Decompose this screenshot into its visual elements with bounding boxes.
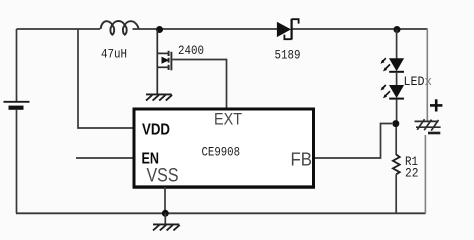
LED D3 (LED2 of LEDx string) [380, 85, 404, 99]
wire node B down to LED1 anode [396, 30, 398, 59]
battery BT1 [4, 102, 30, 110]
wire node D to resistor R1 [395, 127, 397, 155]
wire node C to ground symbol [164, 213, 166, 224]
transistor Q1 (N-MOSFET) [157, 51, 171, 71]
svg-text:22: 22 [405, 166, 419, 180]
wire top rail left (input to inductor) [17, 28, 101, 30]
wire left edge (battery - to bottom rail) [16, 110, 18, 214]
inductor L1 [101, 21, 139, 35]
wire left edge (top rail to battery +) [16, 29, 18, 101]
label - polarity (C1) [428, 132, 440, 135]
svg-text:VDD: VDD [142, 121, 170, 138]
svg-text:CE9908: CE9908 [202, 146, 241, 160]
wire LED2 cathode to node D [396, 99, 398, 121]
wire between LED1 and LED2 [396, 72, 398, 85]
wire top rail right (diode cathode to right edge) [293, 28, 428, 30]
wire capacitor C1 to bottom rail [424, 135, 426, 213]
wire bottom rail [16, 212, 426, 214]
ground (main, below bottom rail) [153, 224, 180, 230]
diode D1 (Schottky) [277, 19, 299, 40]
node D junction dot (FB / LED string / R1) [392, 120, 399, 127]
wire drain (node A down to transistor) [156, 30, 158, 54]
node A junction dot (inductor / MOSFET drain) [156, 26, 163, 33]
resistor R1 [393, 155, 400, 175]
svg-text:FB: FB [291, 150, 313, 170]
capacitor C1 (polarized, hatched plate) [415, 119, 441, 130]
LED D2 (LED1 of LEDx string) [380, 58, 404, 72]
wire VDD branch (top rail to VDD pin) [78, 29, 133, 128]
svg-text:47uH: 47uH [101, 48, 127, 62]
svg-text:VSS: VSS [147, 165, 179, 187]
wire top rail mid (inductor to diode anode) [133, 28, 278, 30]
wire resistor R1 to bottom rail [395, 174, 397, 213]
svg-text:2400: 2400 [178, 44, 204, 58]
wire VSS pin to bottom rail [164, 187, 166, 213]
label + polarity (C1) [430, 99, 442, 111]
wire FB pin to node D [315, 124, 392, 159]
ground (MOSFET source) [146, 94, 172, 100]
node C junction dot (VSS / bottom rail) [162, 210, 169, 217]
svg-text:EXT: EXT [214, 109, 242, 128]
svg-text:5189: 5189 [275, 49, 301, 63]
wire capacitor branch (top rail corner down to C1) [426, 29, 428, 121]
node B junction dot (LED branch tap) [394, 26, 401, 33]
wire EN stub (to EN pin) [76, 157, 133, 159]
IC U1 CE9908 [133, 109, 315, 187]
wire gate to EXT pin [172, 60, 226, 109]
wire source (transistor to ground) [156, 67, 158, 94]
